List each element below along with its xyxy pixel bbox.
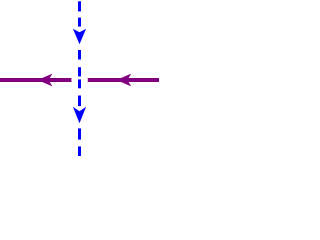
- dash segment A: [78, 1, 81, 11]
- wire B (blue dashed vertical field line): [78, 1, 81, 156]
- arrowhead left purple stealth 1: [38, 74, 53, 87]
- dash segment B: [78, 18, 81, 27]
- dash segment E (over circle): [78, 79, 81, 88]
- wire F (purple horizontal force line): [0, 78, 159, 82]
- dash segment D (over circle): [78, 67, 81, 76]
- dash segment H: [78, 146, 81, 156]
- node wire cross-section (white circle): [71, 72, 88, 89]
- dash segment C: [78, 50, 81, 60]
- dash segment F: [78, 96, 81, 107]
- dash segment G: [78, 128, 81, 139]
- arrowhead down blue stealth 2: [73, 107, 86, 124]
- arrowhead down blue stealth 1: [73, 29, 86, 45]
- arrowhead left purple stealth 2: [116, 74, 131, 87]
